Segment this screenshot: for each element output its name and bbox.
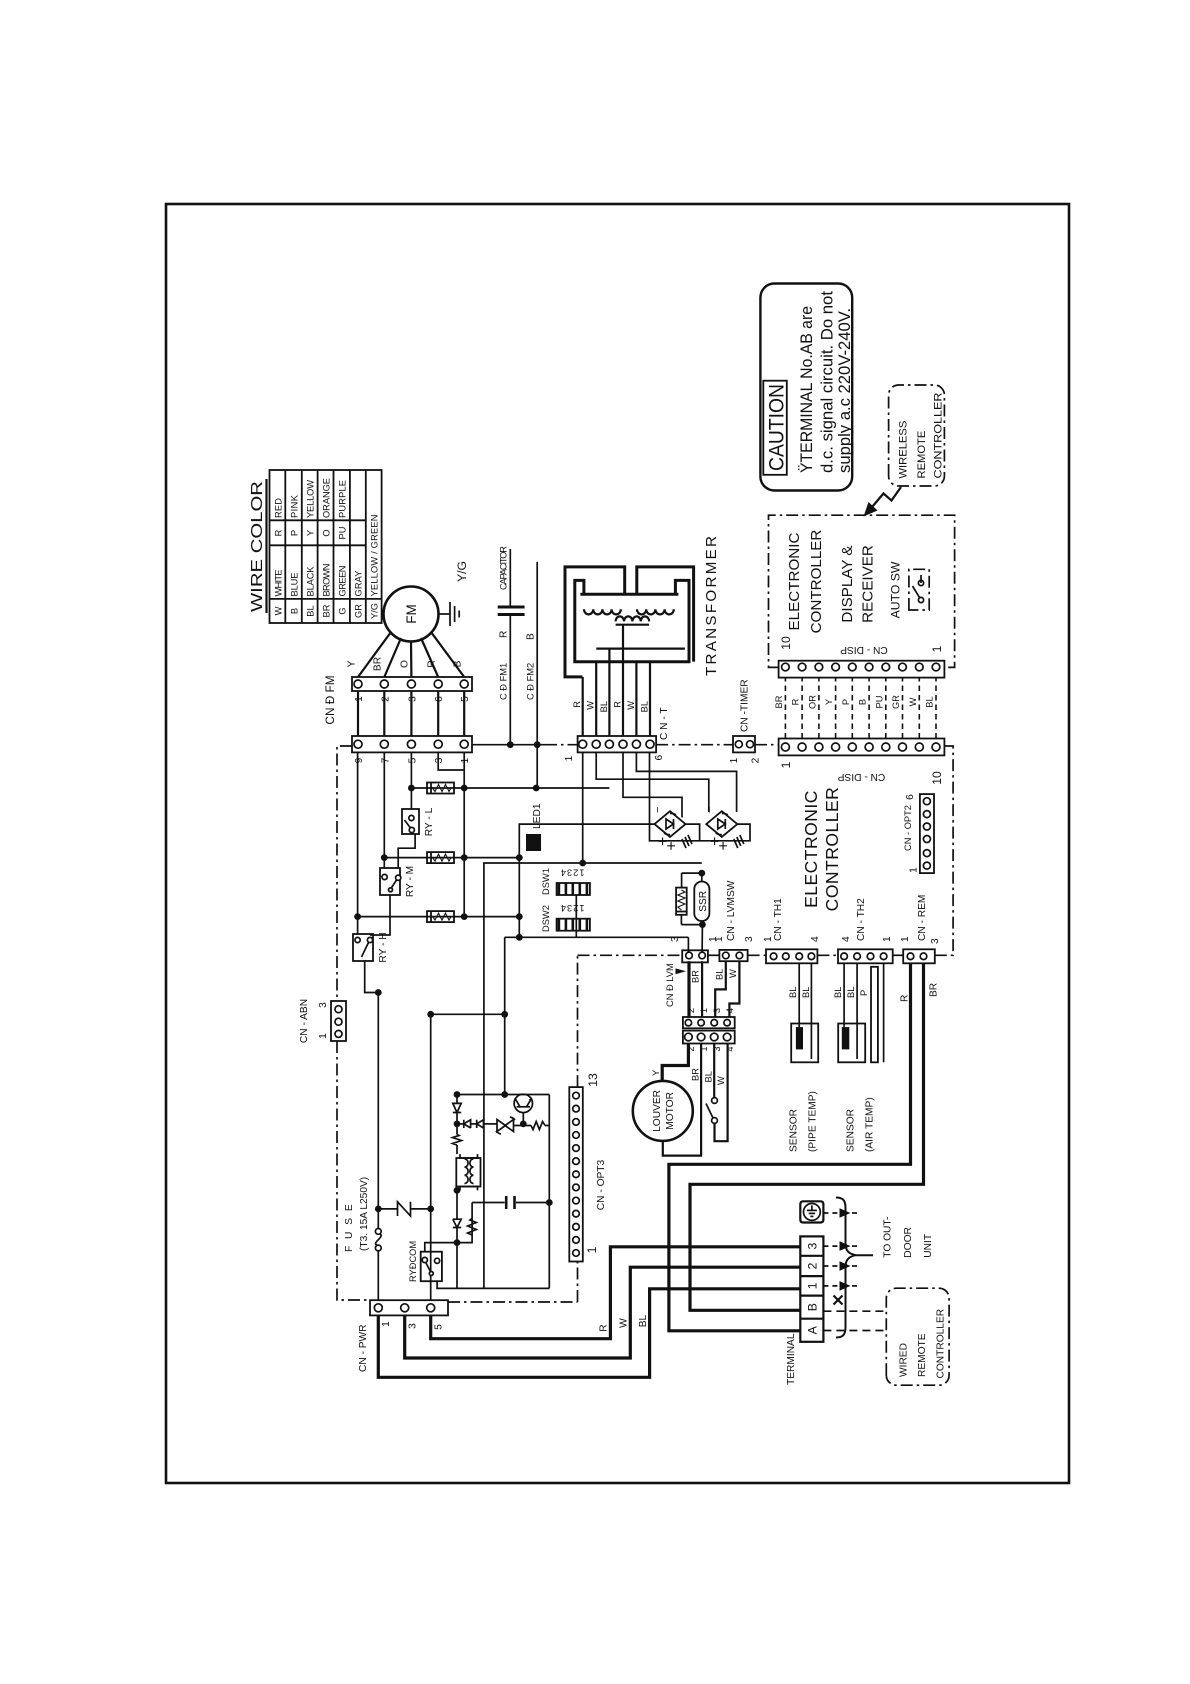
resistor Rb zigzag	[453, 1135, 462, 1146]
rail2	[457, 1094, 549, 1096]
wire O pin5	[410, 752, 412, 809]
display connector CN-DISP	[779, 661, 945, 678]
svg-text:BL: BL	[715, 969, 725, 980]
node q1 base	[520, 1121, 527, 1128]
DSW2 dip switch	[557, 919, 590, 931]
svg-text:R: R	[612, 701, 622, 708]
wire Y to motor	[662, 1044, 688, 1082]
svg-text:TERMINAL: TERMINAL	[786, 1333, 797, 1385]
svg-text:DSW2: DSW2	[541, 905, 551, 932]
louver feed BL	[701, 961, 703, 1017]
svg-text:O: O	[322, 529, 332, 536]
wire color legend title underline	[265, 479, 267, 613]
relay coil column RY-M	[384, 857, 519, 859]
node cap B	[534, 741, 541, 748]
TH1 sensor wires	[798, 963, 800, 1027]
node rail2 top	[454, 1091, 461, 1098]
relay coil column RY-L	[411, 787, 609, 789]
svg-text:R: R	[900, 995, 911, 1002]
svg-text:CN - OPT2: CN - OPT2	[903, 805, 913, 851]
svg-text:Y: Y	[306, 530, 316, 536]
svg-text:6: 6	[434, 696, 445, 702]
svg-text:YELLOW: YELLOW	[306, 480, 316, 518]
louver pin numbers lower	[686, 1046, 735, 1051]
svg-text:10: 10	[779, 636, 793, 650]
neutral wire	[430, 1014, 432, 1300]
svg-text:CN - OPT3: CN - OPT3	[596, 1159, 607, 1210]
louver feed w3	[715, 961, 726, 1017]
svg-text:R: R	[572, 701, 582, 708]
svg-text:2: 2	[381, 696, 392, 702]
wire BL to terminal 1	[378, 1289, 800, 1378]
wire color table text	[274, 478, 380, 619]
transistor Q1	[514, 1094, 532, 1112]
wire B common pin1	[463, 752, 465, 916]
main connector CN-DISP	[779, 739, 945, 756]
louver feed BR	[687, 961, 690, 1017]
svg-text:3: 3	[670, 936, 681, 942]
svg-text:CN -TIMER: CN -TIMER	[740, 679, 751, 732]
svg-text:1: 1	[909, 867, 920, 873]
CN-FM wire color labels	[347, 657, 464, 671]
relay RY-COM	[421, 1252, 442, 1282]
varistor Z	[398, 1202, 411, 1216]
svg-text:LOUVER: LOUVER	[652, 1090, 663, 1132]
svg-text:CN - TH2: CN - TH2	[856, 898, 867, 941]
svg-text:3: 3	[408, 696, 419, 702]
svg-text:DSW1: DSW1	[541, 868, 551, 895]
svg-text:6: 6	[654, 754, 665, 760]
svg-text:Y/G: Y/G	[455, 561, 469, 582]
svg-text:9: 9	[354, 757, 365, 763]
dash link to CN-T	[545, 744, 578, 746]
node d2a	[454, 1239, 461, 1246]
svg-text:RY - H: RY - H	[378, 932, 389, 962]
SSR	[694, 882, 709, 922]
svg-text:R: R	[274, 529, 284, 536]
CN-FM board pin numbers 9 7 5 3 1	[354, 757, 471, 763]
DSW1 dip switch	[557, 883, 590, 895]
svg-text:(AIR TEMP): (AIR TEMP)	[865, 1097, 876, 1152]
transformer inner tap wire	[596, 647, 685, 649]
wire color table grid	[270, 470, 382, 623]
svg-text:C N - T: C N - T	[659, 707, 670, 740]
ssr feed wire	[484, 863, 702, 1288]
display controller box	[769, 515, 955, 667]
svg-text:BL: BL	[801, 987, 811, 998]
transformer winding B	[637, 609, 674, 614]
louver motor	[633, 1081, 693, 1141]
svg-text:W: W	[716, 1076, 726, 1085]
svg-text:C Đ FM1: C Đ FM1	[499, 663, 509, 700]
svg-text:3: 3	[712, 1008, 722, 1013]
wire switch to pin4	[715, 1044, 728, 1142]
caution box	[760, 284, 852, 491]
svg-text:GR: GR	[891, 695, 901, 709]
svg-text:1: 1	[564, 755, 575, 761]
svg-text:1: 1	[460, 757, 471, 763]
brace to outdoor	[836, 1198, 873, 1338]
live wire cont	[377, 993, 379, 1229]
resistor on link	[468, 1219, 477, 1236]
svg-text:ORANGE: ORANGE	[322, 478, 332, 518]
svg-text:1: 1	[714, 936, 725, 942]
triac resistor zigzag	[531, 1122, 545, 1130]
sensor probe pipe	[791, 1024, 818, 1063]
svg-text:P: P	[290, 530, 300, 536]
svg-text:CONTROLLER: CONTROLLER	[822, 787, 842, 912]
svg-text:BL: BL	[846, 987, 856, 998]
RY-COM lead right	[425, 1243, 457, 1252]
svg-text:W: W	[728, 969, 738, 978]
node ssr top	[698, 870, 705, 877]
svg-text:R: R	[427, 660, 438, 667]
relay contact RY-L	[402, 809, 419, 834]
svg-text:FM: FM	[404, 604, 419, 624]
svg-text:B: B	[806, 1303, 820, 1311]
extra wire th2	[883, 963, 885, 1062]
triac	[497, 1120, 514, 1132]
bridge2 zz	[734, 835, 744, 848]
svg-text:BLACK: BLACK	[306, 566, 316, 597]
svg-text:RY - L: RY - L	[424, 807, 435, 836]
ground terminal cell	[800, 1201, 823, 1222]
bridge rectifier 2	[706, 811, 737, 837]
svg-text:supply a.c 220V-240V.: supply a.c 220V-240V.	[836, 308, 854, 473]
connector CN-OPT2	[920, 794, 934, 873]
outdoor arrows	[840, 1208, 851, 1291]
svg-text:1234: 1234	[560, 868, 585, 878]
sensor probe air	[838, 1024, 865, 1063]
svg-text:WIRELESS: WIRELESS	[898, 421, 910, 479]
svg-text:WIRED: WIRED	[899, 1343, 910, 1377]
svg-text:BROWN: BROWN	[322, 564, 332, 597]
node neutral-varistor	[427, 1206, 434, 1213]
capacitor R lead right	[509, 549, 511, 607]
fan motor FM	[384, 587, 439, 642]
node RYL cap	[533, 785, 540, 792]
svg-text:BL: BL	[306, 605, 316, 616]
wire BR pin7	[383, 752, 385, 868]
wire RY-M common	[371, 895, 390, 935]
page border frame	[166, 204, 1069, 1483]
svg-text:BL: BL	[925, 696, 935, 707]
svg-text:ŸTERMINAL No.AB are: ŸTERMINAL No.AB are	[798, 306, 816, 473]
svg-text:RECEIVER: RECEIVER	[860, 545, 877, 623]
terminal block	[800, 1236, 823, 1341]
svg-text:CN Đ FM: CN Đ FM	[323, 675, 337, 724]
svg-text:RYĐCOM: RYĐCOM	[408, 1241, 418, 1282]
svg-text:REMOTE: REMOTE	[917, 1333, 928, 1377]
svg-text:PINK: PINK	[290, 494, 300, 518]
svg-text:BL: BL	[599, 701, 609, 712]
connector CN-PWR	[370, 1300, 448, 1315]
svg-text:BR: BR	[929, 983, 940, 997]
svg-text:CN - LVMSW: CN - LVMSW	[726, 880, 737, 941]
svg-text:DISPLAY &: DISPLAY &	[839, 545, 856, 622]
wire to d1	[456, 1113, 458, 1135]
varistor link	[378, 1208, 397, 1210]
svg-text:Y: Y	[824, 699, 834, 705]
svg-text:O: O	[400, 660, 411, 668]
connector CN-FM plug side	[352, 677, 472, 691]
resistor R2	[676, 888, 687, 915]
svg-text:CN - REM: CN - REM	[917, 895, 928, 941]
svg-text:OR: OR	[808, 695, 818, 709]
svg-text:CONTROLLER: CONTROLLER	[933, 393, 945, 479]
wire RY-H common	[365, 961, 379, 993]
svg-text:d.c. signal circuit. Do not: d.c. signal circuit. Do not	[819, 290, 837, 473]
svg-text:7: 7	[381, 757, 392, 763]
svg-text:Y/G: Y/G	[370, 603, 380, 619]
wire W switch	[713, 1044, 715, 1098]
Q1 base wire	[522, 1113, 524, 1124]
diode D2	[456, 1190, 458, 1242]
node c2-rail	[546, 1199, 553, 1206]
svg-text:W: W	[908, 697, 918, 706]
svg-text:CN - ABN: CN - ABN	[299, 999, 310, 1043]
louver pin numbers upper	[686, 1008, 735, 1013]
svg-text:4: 4	[810, 936, 821, 942]
svg-text:LED1: LED1	[532, 803, 543, 829]
P hollow wire	[871, 967, 878, 1063]
svg-text:(PIPE TEMP): (PIPE TEMP)	[808, 1091, 819, 1152]
connector CN-T	[578, 736, 657, 752]
svg-text:CN - DISP: CN - DISP	[838, 771, 886, 782]
svg-text:SENSOR: SENSOR	[789, 1109, 800, 1152]
connector CN-TH2	[838, 949, 893, 963]
wire CN-T pin1	[582, 752, 584, 863]
svg-text:YELLOW / GREEN: YELLOW / GREEN	[370, 515, 380, 597]
wire Y pin9	[357, 752, 359, 934]
node RYH B	[461, 913, 468, 920]
transformer core inner	[575, 580, 689, 661]
SSR leads	[701, 873, 704, 955]
svg-text:2: 2	[751, 757, 762, 763]
svg-text:1: 1	[882, 936, 893, 942]
ribbon wires	[785, 678, 936, 739]
node cap R	[507, 741, 514, 748]
svg-text:CAPACITOR: CAPACITOR	[499, 546, 509, 590]
relay contact RY-M	[380, 868, 400, 895]
wire d1 to rail2	[456, 1095, 458, 1104]
svg-text:BR: BR	[691, 970, 701, 983]
auto sw switch	[909, 569, 929, 610]
louver connector plug side	[683, 1031, 735, 1044]
remote dash A	[823, 1330, 886, 1332]
board boundary dash-dot	[337, 745, 953, 1302]
connector CN-LVMSW	[682, 950, 708, 962]
svg-text:1: 1	[900, 936, 911, 942]
node ssr bottom	[699, 921, 706, 928]
node RYH dc	[516, 913, 523, 920]
svg-text:BR: BR	[322, 604, 332, 617]
node RYM B	[461, 854, 468, 861]
caution title box	[763, 381, 787, 475]
diode chain down	[457, 1123, 464, 1125]
svg-text:B: B	[858, 699, 868, 705]
connector CN-LVM aux	[719, 950, 747, 961]
transformer core outer bottom	[637, 567, 694, 662]
wire BL to motor	[663, 1044, 701, 1156]
LED1	[526, 834, 541, 851]
svg-text:PURPLE: PURPLE	[338, 480, 348, 518]
transformer primary winding	[616, 616, 650, 621]
node d-chain	[454, 1121, 461, 1128]
louver feed w4	[729, 961, 739, 1017]
svg-text:5: 5	[460, 696, 471, 702]
switching transformer T2	[460, 1154, 478, 1190]
svg-text:1: 1	[806, 1282, 820, 1289]
svg-text:3: 3	[318, 1002, 329, 1008]
bridge2 in A	[596, 752, 709, 812]
connector CN-REM	[903, 949, 935, 963]
outdoor dashes ground	[823, 1213, 861, 1286]
svg-text:Y: Y	[651, 1070, 661, 1076]
transformer core outer top	[565, 567, 625, 677]
svg-text:G: G	[338, 607, 348, 614]
svg-text:C Đ FM2: C Đ FM2	[526, 663, 536, 700]
svg-text:1: 1	[585, 1246, 599, 1253]
svg-text:3: 3	[806, 1242, 820, 1249]
diode D1	[453, 1103, 461, 1112]
relay coil RY-H	[427, 911, 454, 922]
bridge2 in B	[636, 752, 736, 812]
wires between CN-FM connectors	[358, 691, 464, 736]
remote dash B	[823, 1310, 886, 1312]
wireless arrowhead	[864, 502, 878, 517]
svg-text:4: 4	[841, 936, 852, 942]
svg-text:WIRE COLOR: WIRE COLOR	[249, 481, 266, 612]
svg-text:BR: BR	[373, 657, 384, 671]
bridge2 loop	[700, 824, 750, 841]
svg-text:BLUE: BLUE	[290, 573, 300, 597]
wired remote controller box	[886, 1288, 949, 1385]
wire R pin3 hook	[438, 752, 464, 770]
svg-text:WHITE: WHITE	[274, 570, 284, 597]
svg-text:BL: BL	[788, 987, 798, 998]
svg-text:CAUTION: CAUTION	[766, 384, 789, 471]
cap C2 column	[472, 1202, 505, 1204]
svg-text:PU: PU	[338, 527, 348, 540]
bridge1 in A	[623, 752, 682, 817]
svg-text:R: R	[791, 698, 801, 705]
svg-text:ELECTRONIC: ELECTRONIC	[786, 533, 803, 631]
svg-text:1234: 1234	[560, 903, 585, 913]
svg-text:1: 1	[699, 1008, 709, 1013]
svg-text:1: 1	[930, 645, 944, 652]
capacitor C	[498, 613, 525, 616]
svg-text:AUTO SW: AUTO SW	[889, 561, 903, 618]
bridge rectifier 1	[655, 811, 686, 837]
svg-text:CN - DISP: CN - DISP	[840, 644, 888, 655]
svg-text:R: R	[499, 631, 510, 638]
connector CN-TIMER	[733, 736, 755, 752]
svg-text:1: 1	[318, 1033, 329, 1039]
svg-text:3: 3	[408, 1323, 419, 1329]
svg-text:TRANSFORMER: TRANSFORMER	[703, 536, 720, 676]
svg-text:RED: RED	[274, 498, 284, 518]
transformer lead wires	[583, 625, 650, 736]
capacitor R lead	[509, 615, 511, 745]
wire R to terminal 3	[431, 1247, 801, 1339]
svg-text:P: P	[859, 990, 869, 996]
node dc cross	[516, 934, 523, 941]
svg-text:F U S E: F U S E	[344, 1202, 355, 1252]
svg-text:3: 3	[434, 757, 445, 763]
wire B cap to relay column	[536, 745, 538, 788]
relay coil RY-M	[427, 852, 454, 863]
svg-text:W: W	[586, 701, 596, 710]
ground symbol Y/G	[439, 602, 460, 626]
CN-LVM arrow	[676, 968, 687, 974]
svg-text:1: 1	[763, 936, 774, 942]
svg-text:(T3. 15A L250V): (T3. 15A L250V)	[359, 1177, 370, 1251]
svg-text:RY - M: RY - M	[405, 866, 416, 897]
svg-text:13: 13	[586, 1073, 600, 1087]
svg-text:SSR: SSR	[698, 891, 709, 912]
cap C2 plates	[505, 1196, 508, 1209]
svg-text:B: B	[526, 633, 537, 640]
svg-text:−: −	[704, 807, 716, 813]
dc wire d2 row	[456, 1243, 458, 1289]
transformer winding A	[584, 609, 621, 614]
wire t2 to d1	[456, 1145, 458, 1154]
svg-text:5: 5	[434, 1324, 445, 1330]
wire RY-L common	[398, 834, 415, 868]
svg-text:5: 5	[408, 757, 419, 763]
svg-text:1: 1	[779, 761, 793, 768]
louver connector board side	[683, 1017, 735, 1028]
svg-text:W: W	[274, 606, 284, 615]
svg-text:CONTROLLER: CONTROLLER	[808, 530, 825, 634]
lvmsw stub	[687, 937, 689, 955]
wireless arrow zigzag	[870, 487, 902, 510]
svg-text:CN - TH1: CN - TH1	[773, 898, 784, 941]
neutral drop	[431, 1013, 505, 1015]
svg-text:MOTOR: MOTOR	[665, 1092, 676, 1130]
dsw branch	[575, 895, 577, 937]
svg-text:+: +	[664, 841, 681, 850]
dc mid wire	[504, 937, 506, 1094]
svg-text:1: 1	[354, 696, 365, 702]
svg-text:BL: BL	[638, 1314, 649, 1327]
node pin1 tap	[579, 860, 586, 867]
CN-FM plug pin numbers 1 2 3 6 5	[354, 696, 471, 702]
svg-text:UNIT: UNIT	[923, 1234, 934, 1258]
svg-text:REMOTE: REMOTE	[916, 431, 928, 479]
wire W to terminal 2	[405, 1267, 801, 1358]
R2 leads	[681, 873, 702, 925]
connector CN-TH1	[766, 949, 817, 963]
svg-text:2: 2	[806, 1262, 820, 1269]
link to c2	[457, 1203, 472, 1243]
rail bottom	[548, 1095, 550, 1289]
louver switch	[712, 1098, 718, 1104]
relay coil RY-L	[427, 783, 454, 794]
node rail2 mid	[501, 1091, 508, 1098]
ribbon wire labels	[774, 695, 935, 709]
node RYM dc	[516, 854, 523, 861]
svg-text:10: 10	[930, 771, 944, 785]
bridge1 zz	[682, 835, 692, 848]
svg-text:CN - PWR: CN - PWR	[358, 1324, 369, 1372]
TH2 sensor wires	[843, 963, 845, 1027]
svg-text:1: 1	[729, 757, 740, 763]
svg-text:SENSOR: SENSOR	[846, 1109, 857, 1152]
svg-text:B: B	[453, 660, 464, 667]
svg-text:3: 3	[930, 938, 941, 944]
